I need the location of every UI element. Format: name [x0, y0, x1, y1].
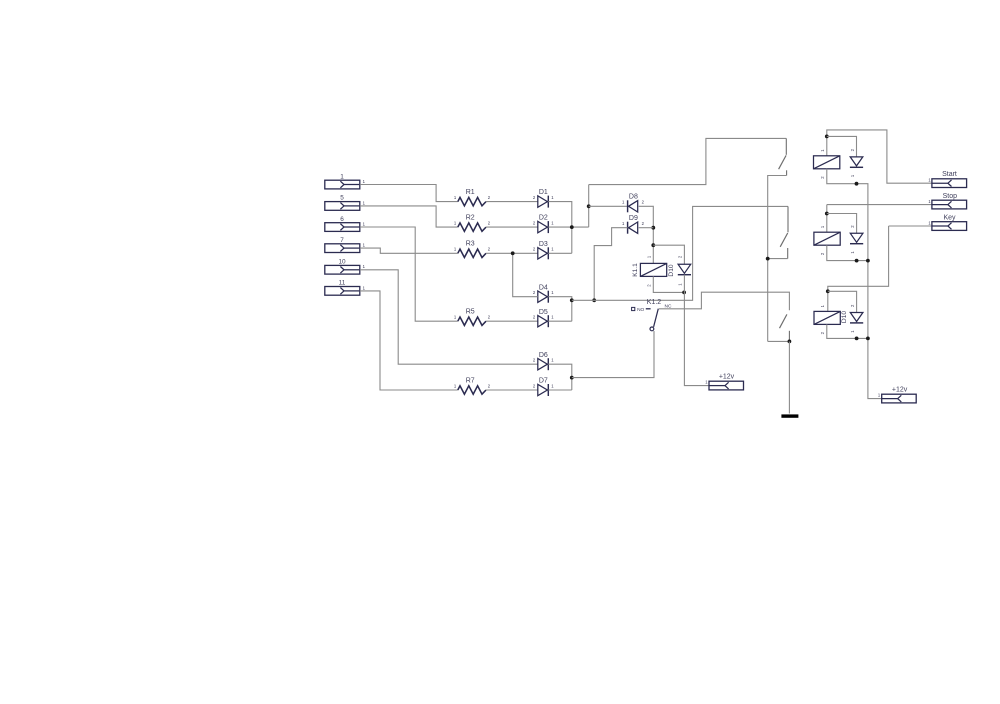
wire to ground — [788, 341, 790, 413]
wire connector5 to R2 — [360, 206, 458, 227]
pin 2 of R3 — [488, 247, 491, 252]
pin 2 of relay1 diode — [850, 148, 855, 151]
svg-text:D4: D4 — [539, 284, 548, 291]
junction relay3 top — [826, 289, 830, 293]
wire connector1 to R1 — [360, 185, 458, 202]
junction relay2 top — [825, 212, 829, 216]
wire R2 to D2 — [486, 226, 538, 228]
diode D1 — [538, 196, 549, 208]
pin 2 of relay3 — [820, 331, 825, 334]
pin 1 of D9 — [622, 221, 625, 226]
wire D5 output — [548, 320, 572, 322]
svg-text:Start: Start — [942, 171, 957, 178]
connector 1 — [325, 180, 360, 189]
svg-text:K1.2: K1.2 — [647, 299, 662, 306]
diode of relay2 — [850, 233, 863, 243]
label +12v — [719, 374, 735, 381]
svg-text:1: 1 — [551, 290, 554, 295]
label Stop — [943, 193, 958, 200]
svg-text:1: 1 — [363, 243, 366, 248]
svg-text:2: 2 — [488, 221, 491, 226]
svg-text:R5: R5 — [466, 309, 475, 316]
wire connector10 to D6 — [360, 270, 538, 364]
label 6 of connector — [340, 216, 344, 223]
svg-text:K1.1: K1.1 — [632, 263, 639, 277]
contact S1 (relay contact) — [779, 138, 787, 175]
pin 2 of D7 — [533, 383, 536, 388]
svg-text:2: 2 — [533, 315, 536, 320]
svg-text:2: 2 — [678, 255, 683, 258]
svg-text:2: 2 — [533, 290, 536, 295]
label D10 — [668, 264, 675, 276]
junction D6 D7 outputs — [570, 376, 574, 380]
pin 2 of D9 — [642, 221, 645, 226]
svg-text:R2: R2 — [466, 215, 475, 222]
svg-text:1: 1 — [551, 195, 554, 200]
wire to relay1 diode anode — [827, 136, 857, 157]
wire R5 to D5 — [486, 320, 538, 322]
wire D1 output down — [548, 202, 572, 254]
svg-text:1: 1 — [878, 393, 881, 398]
pin 1 of Key — [928, 221, 931, 226]
svg-text:2: 2 — [850, 225, 855, 228]
svg-text:1: 1 — [340, 173, 344, 180]
svg-text:1: 1 — [454, 315, 457, 320]
svg-text:1: 1 — [551, 247, 554, 252]
svg-text:D1: D1 — [539, 189, 548, 196]
pin 2 of R1 — [488, 195, 491, 200]
svg-text:1: 1 — [363, 179, 366, 184]
svg-text:NO: NO — [637, 307, 644, 313]
pin 2 of R7 — [488, 383, 491, 388]
connector Key — [932, 222, 967, 231]
pin 1 of +12v connector — [705, 380, 708, 385]
pin 2 of relay2 diode — [850, 225, 855, 228]
svg-text:1: 1 — [622, 200, 625, 205]
svg-text:11: 11 — [339, 280, 346, 287]
label D4 — [539, 284, 548, 291]
svg-text:1: 1 — [850, 174, 855, 177]
svg-text:1: 1 — [551, 221, 554, 226]
label 7 of connector — [340, 237, 344, 244]
junction relay3 on +12v rail — [866, 337, 870, 341]
svg-text:D10: D10 — [668, 264, 675, 276]
junction D1 D2 D3 outputs — [570, 225, 574, 229]
diode D3 — [538, 247, 549, 259]
junction relay1 top — [825, 135, 829, 139]
label D1 — [539, 189, 548, 196]
pin 1 of connector 7 — [363, 243, 366, 248]
svg-text:D9: D9 — [629, 215, 638, 222]
pin 1 of D5 — [551, 315, 554, 320]
pin 2 of R2 — [488, 221, 491, 226]
svg-text:1: 1 — [622, 221, 625, 226]
relay coil 1 — [814, 156, 840, 169]
label D2 — [539, 215, 548, 222]
wire ground bus corner — [768, 340, 790, 342]
svg-text:6: 6 — [340, 216, 344, 223]
svg-text:R3: R3 — [466, 241, 475, 248]
pin 1 of Stop — [928, 199, 931, 204]
wire node R3-D3 to D4 — [513, 253, 538, 296]
pin 1 of relay2 diode — [850, 251, 855, 254]
label R7 — [466, 377, 475, 384]
label K1.2 — [647, 299, 662, 306]
connector 7 — [325, 244, 360, 253]
svg-text:2: 2 — [820, 176, 825, 179]
svg-text:1: 1 — [820, 304, 825, 307]
label D5 — [539, 309, 548, 316]
junction riser D8 — [587, 204, 591, 208]
svg-text:2: 2 — [488, 195, 491, 200]
junction relay1 diode cathode — [855, 182, 859, 186]
wire Key to relay3 coil top — [828, 226, 889, 311]
svg-text:2: 2 — [488, 247, 491, 252]
resistor R5 — [458, 317, 486, 325]
connector Stop — [932, 200, 967, 209]
svg-text:1: 1 — [928, 177, 931, 182]
pin 1 of D6 — [551, 358, 554, 363]
pin 2 of D1 — [533, 195, 536, 200]
pin 1 of D2 — [551, 221, 554, 226]
pin 2 of relay3 diode — [850, 304, 855, 307]
resistor R3 — [458, 249, 486, 257]
pin 1 of Start — [928, 177, 931, 182]
label 10 of connector — [338, 259, 346, 266]
pin 2 of D3 — [533, 247, 536, 252]
label D7 — [539, 378, 548, 385]
label 1 of connector — [340, 173, 344, 180]
diode D10 — [678, 264, 691, 274]
junction R3 D3 D4 — [511, 251, 515, 255]
wire D7 output — [548, 389, 572, 391]
wire D6 output down — [548, 364, 572, 390]
junction relay2 diode cathode — [855, 259, 859, 263]
diode D7 — [538, 384, 549, 396]
svg-text:2: 2 — [850, 304, 855, 307]
connector 5 — [325, 202, 360, 211]
pin 1 of R2 — [454, 221, 457, 226]
svg-text:1: 1 — [850, 251, 855, 254]
pin 1 of R5 — [454, 315, 457, 320]
diode D6 — [538, 358, 549, 370]
diode D8 — [628, 200, 638, 212]
connector +12v (right) — [882, 394, 917, 403]
resistor R7 — [458, 386, 486, 394]
svg-text:1: 1 — [454, 247, 457, 252]
wire K1.1 pin2 to D10 cathode — [653, 276, 684, 292]
wire R7 to D7 — [486, 389, 538, 391]
relay coil K1.1 — [640, 263, 666, 276]
pin 1 of +12v right — [878, 393, 881, 398]
svg-text:1: 1 — [363, 285, 366, 290]
svg-text:2: 2 — [488, 315, 491, 320]
pin 2 of D8 — [642, 200, 645, 205]
wire S1 bottom to ground bus — [768, 176, 787, 342]
svg-text:1: 1 — [454, 195, 457, 200]
svg-text:1: 1 — [678, 283, 683, 286]
pin 2 of D5 — [533, 315, 536, 320]
label R1 — [466, 189, 475, 196]
pin 1 of connector 6 — [363, 221, 366, 226]
svg-text:Stop: Stop — [943, 193, 958, 200]
connector 10 — [325, 265, 360, 274]
svg-text:5: 5 — [340, 195, 344, 202]
svg-text:10: 10 — [338, 259, 346, 266]
pin 1 of D3 — [551, 247, 554, 252]
pin 1 of D8 — [622, 200, 625, 205]
ground — [781, 414, 798, 417]
svg-text:D2: D2 — [539, 215, 548, 222]
wire Stop net — [827, 204, 932, 206]
svg-text:2: 2 — [533, 195, 536, 200]
wire connector6 to R5 — [360, 227, 458, 321]
svg-text:1: 1 — [820, 149, 825, 152]
wire relay2 bottom — [827, 245, 868, 260]
junction S3 bottom ground — [788, 340, 792, 344]
junction relay3 diode cathode — [855, 337, 859, 341]
svg-text:+12v: +12v — [719, 374, 735, 381]
pin 1 of connector 10 — [363, 264, 366, 269]
pin 1 of D7 — [551, 383, 554, 388]
wire Key net — [889, 225, 932, 227]
svg-text:D10: D10 — [841, 311, 848, 323]
connector 6 — [325, 223, 360, 232]
diode D9 — [628, 222, 638, 234]
svg-text:+12v: +12v — [892, 387, 908, 394]
pin 1 of R7 — [454, 383, 457, 388]
label D10 of relay3 diode — [841, 311, 848, 323]
wire D4 output down — [548, 297, 572, 322]
relay coil 2 — [814, 232, 840, 245]
wire bus to contact S2 — [572, 206, 788, 300]
pin 1 of connector 11 — [363, 285, 366, 290]
svg-text:1: 1 — [647, 255, 652, 258]
label K1.1 — [632, 263, 639, 277]
junction K1.1 branch to D10 — [651, 243, 655, 247]
svg-text:1: 1 — [551, 383, 554, 388]
pin 1 of connector 5 — [363, 200, 366, 205]
pin 1 of D10 — [678, 283, 683, 286]
wire to relay2 diode anode — [827, 214, 857, 234]
label Start — [942, 171, 957, 178]
junction D4 D5 outputs — [570, 298, 574, 302]
pin 1 of D4 — [551, 290, 554, 295]
pin 1 of relay1 — [820, 149, 825, 152]
svg-text:2: 2 — [820, 331, 825, 334]
contact K1.2 blade — [654, 309, 659, 327]
wire to relay3 diode anode — [828, 291, 857, 312]
junction D10 cathode — [682, 291, 686, 295]
label D9 — [629, 215, 638, 222]
diode D2 — [538, 221, 549, 233]
pin 2 of R5 — [488, 315, 491, 320]
label D6 — [539, 352, 548, 359]
wire to diode D10 anode — [653, 245, 684, 264]
wire D8 anode down to relay K1.1 — [639, 206, 654, 263]
svg-text:2: 2 — [533, 358, 536, 363]
label D3 — [539, 241, 548, 248]
label R3 — [466, 241, 475, 248]
diode D10 of relay3 — [850, 313, 863, 323]
pin 1 of R1 — [454, 195, 457, 200]
contact S2 (relay contact) — [780, 206, 788, 258]
svg-text:1: 1 — [705, 380, 708, 385]
junction staircase on bus — [592, 298, 596, 302]
junction D9 anode — [651, 226, 655, 230]
svg-text:R1: R1 — [466, 189, 475, 196]
junction relay2 on +12v rail — [866, 259, 870, 263]
label +12v right — [892, 387, 908, 394]
pin 1 of relay3 diode — [850, 330, 855, 333]
pin 2 of relay2 — [820, 252, 825, 255]
svg-text:1: 1 — [454, 383, 457, 388]
svg-text:R7: R7 — [466, 377, 475, 384]
svg-text:1: 1 — [551, 358, 554, 363]
contact K1.2 common hook — [650, 327, 654, 331]
contact S3 (relay contact) — [780, 314, 790, 341]
pin 2 of D4 — [533, 290, 536, 295]
wire D9 anode — [639, 227, 654, 229]
diode D5 — [538, 315, 549, 327]
pin 1 of R3 — [454, 247, 457, 252]
svg-text:1: 1 — [363, 221, 366, 226]
label 11 of connector — [339, 280, 346, 287]
pin 2 of D2 — [533, 221, 536, 226]
svg-text:1: 1 — [363, 264, 366, 269]
label 5 of connector — [340, 195, 344, 202]
svg-text:2: 2 — [533, 383, 536, 388]
diode D4 — [538, 291, 549, 303]
svg-text:1: 1 — [363, 200, 366, 205]
relay coil 3 — [814, 311, 840, 324]
pin 2 of relay1 — [820, 176, 825, 179]
wire D3 output — [548, 252, 572, 254]
label NC — [665, 304, 672, 310]
label D8 — [629, 194, 638, 201]
label NO — [637, 307, 644, 313]
svg-text:2: 2 — [488, 383, 491, 388]
pin 1 of K1.1 — [647, 255, 652, 258]
wire relay3 bottom — [827, 324, 868, 338]
resistor R1 — [458, 197, 486, 205]
svg-text:D7: D7 — [539, 378, 548, 385]
svg-text:2: 2 — [642, 221, 645, 226]
wire D10 cathode to +12v — [684, 275, 709, 386]
pin 2 of K1.1 — [647, 284, 652, 287]
wire relay2 coil top — [826, 205, 828, 233]
wire to D8 cathode — [589, 205, 628, 207]
contact K1.2 NO stub — [646, 308, 651, 310]
contact K1.2 NO terminal pad — [632, 307, 635, 310]
wire R3 to D3 — [486, 252, 538, 254]
svg-text:2: 2 — [647, 284, 652, 287]
svg-text:D3: D3 — [539, 241, 548, 248]
resistor R2 — [458, 223, 486, 231]
svg-text:2: 2 — [820, 252, 825, 255]
pin 1 of relay3 — [820, 304, 825, 307]
label R2 — [466, 215, 475, 222]
label Key — [943, 214, 956, 221]
wire relay1 coil top to Start — [827, 130, 932, 183]
connector Start — [932, 179, 967, 188]
wire top bus to contact S1 — [589, 138, 787, 184]
diode of relay1 — [850, 157, 863, 167]
pin 1 of D1 — [551, 195, 554, 200]
svg-text:2: 2 — [533, 221, 536, 226]
wire D9 cathode staircase to D4-D5 bus — [594, 228, 627, 301]
svg-text:1: 1 — [820, 225, 825, 228]
svg-text:1: 1 — [850, 330, 855, 333]
connector 11 — [325, 287, 360, 296]
wire connector11 to R7 — [360, 291, 458, 390]
wire S2 bottom to ground bus — [768, 258, 788, 260]
wire K1.2 NC to contact S3 — [659, 292, 789, 310]
junction S2 on ground bus — [766, 257, 770, 261]
svg-text:2: 2 — [533, 247, 536, 252]
wire R1 to D1 — [486, 201, 538, 203]
wire D2 output to riser — [548, 226, 588, 228]
svg-text:2: 2 — [850, 148, 855, 151]
svg-text:D6: D6 — [539, 352, 548, 359]
wire relay1 bottom to +12v rail — [827, 169, 882, 399]
pin 1 of relay1 diode — [850, 174, 855, 177]
pin 2 of D6 — [533, 358, 536, 363]
wire connector7 to R3 — [360, 248, 458, 253]
svg-text:D5: D5 — [539, 309, 548, 316]
label R5 — [466, 309, 475, 316]
wire riser to top bus — [588, 185, 590, 228]
svg-text:1: 1 — [551, 315, 554, 320]
svg-text:1: 1 — [928, 199, 931, 204]
pin 2 of D10 — [678, 255, 683, 258]
svg-text:Key: Key — [943, 214, 956, 221]
svg-text:1: 1 — [928, 221, 931, 226]
pin 1 of connector 1 — [363, 179, 366, 184]
svg-text:D8: D8 — [629, 194, 638, 201]
svg-text:2: 2 — [642, 200, 645, 205]
svg-text:7: 7 — [340, 237, 344, 244]
svg-text:1: 1 — [454, 221, 457, 226]
pin 1 of relay2 — [820, 225, 825, 228]
wire bus to K1.2 common — [572, 331, 654, 378]
connector +12v — [709, 381, 744, 390]
